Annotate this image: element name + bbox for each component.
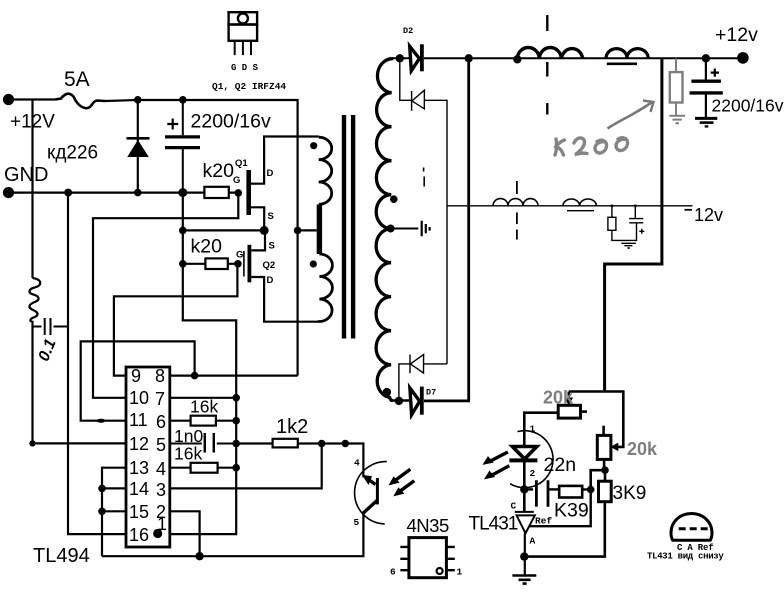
resistor R-k20-2 (gate Q2) [183,263,238,265]
OPTOCOUPLER phototransistor side [355,462,415,524]
TL431 triangle [517,515,535,533]
svg-text:16k: 16k [190,397,218,417]
Ref wire [530,490,591,527]
svg-text:10: 10 [129,388,149,408]
node pin2 on bottom rail [195,552,203,560]
4N35 DIP package [400,538,455,578]
node fuse-diode junction [134,96,142,104]
svg-text:20k: 20k [543,388,574,408]
svg-text:кд226: кд226 [47,143,98,164]
transistor Q2 channel bar [248,245,252,282]
GND input terminal [3,187,14,198]
wire Q2 drain to transformer bottom [251,277,318,322]
svg-text:Q1, Q2 IRFZ44: Q1, Q2 IRFZ44 [212,81,286,92]
pin1 indicator dot inside IC [153,529,162,538]
svg-text:TL431 вид снизу: TL431 вид снизу [647,552,724,562]
wire Q2 source lead up [251,230,265,250]
svg-text:5A: 5A [64,68,90,91]
diode D3 thin (-12v upper) [400,58,447,364]
svg-text:S: S [269,241,275,252]
svg-text:8: 8 [155,366,165,386]
svg-text:5: 5 [156,435,166,455]
node C on -12v [634,205,637,208]
svg-text:Ref: Ref [535,516,552,527]
secondary winding [376,59,393,401]
resistor R-k20-1 (gate Q1) [204,187,228,198]
svg-text:2200/16v: 2200/16v [712,96,784,116]
wire bottom gnd rail to opto emitter [102,513,363,556]
diode кд226 vertical wire [137,100,139,193]
node K39/Ref [587,486,595,494]
node diode on GND rail [134,189,142,197]
primary center-tap bar [317,205,322,255]
svg-text:12v: 12v [694,205,723,225]
node pin8/pin11 junction [191,372,199,380]
svg-text:1: 1 [157,514,167,534]
wire LED anode from pot [524,413,558,447]
INPUT-SECTION [3,94,298,447]
resistor R-16k-2 on pin 4 [170,467,236,469]
wire Q1 source lead [251,207,264,230]
light arrow out 2 [492,466,509,475]
-12V RAIL [447,181,693,248]
svg-text:4: 4 [156,459,166,479]
node gate Q1 [235,189,243,197]
inductor L1 (+12v choke) [517,48,583,59]
wire source gnd line [183,229,264,231]
node R on -12v [611,205,614,208]
resistor R-1k2 [236,444,363,478]
wire pin9 to Q2 gate [114,264,237,376]
diode кд226 symbol [127,137,150,140]
arc around opto transistor [355,462,387,524]
wire GND rail [9,192,239,194]
core bars [342,115,346,339]
node output cap junction [702,54,710,62]
node pin15 [98,508,106,516]
wiper feed line [569,392,624,447]
ground (gray, below k200) [669,116,685,123]
svg-text:TL431: TL431 [469,514,518,535]
wire pin 3 to 1k2 node [170,444,322,489]
svg-text:14: 14 [129,479,149,499]
LED cathode bar [509,458,537,462]
svg-text:D: D [267,275,274,286]
svg-text:6: 6 [390,567,396,578]
opto base bar [376,478,379,504]
TO-220 package drawing [229,12,258,55]
svg-text:12: 12 [129,434,149,454]
svg-text:k20: k20 [191,236,223,258]
svg-text:3: 3 [156,480,166,500]
diode D7 [390,58,469,415]
MOSFET small labels [233,158,275,286]
transistor Q1 channel bar [246,170,251,215]
node pin5 gnd [232,440,240,448]
phasing dot primary bottom [310,260,317,267]
light arrow 1 into transistor [394,469,410,481]
MOSFET Q1 [68,137,363,561]
resistor R-16k-1 on pin 6 [170,420,236,422]
wire VCC filter drop x=32.5 [31,100,33,279]
node gate Q2 [234,260,242,268]
diode D4 thin (-12v lower) [399,355,447,401]
svg-text:16: 16 [129,525,149,545]
svg-text:A: A [530,536,536,547]
wire Q1 gate to pin 10 [93,193,238,398]
capacitor C-22n [524,480,559,506]
plus sign [639,229,644,234]
POT 20k vertical [597,426,611,471]
label -12v [685,209,693,211]
TL431 TO-92 bottom view [671,514,712,541]
svg-text:4: 4 [354,458,360,469]
light arrow 2 into transistor [399,481,415,493]
svg-text:D7: D7 [426,388,436,398]
node secondary center tap [387,225,395,233]
anode wire [524,533,526,574]
node pin6 gnd [232,417,240,425]
wire pin 7 to gnd bus [170,397,236,399]
IC U1 TL494 body [126,367,170,547]
feedback sense line [605,58,662,391]
wire node to K39 node [591,470,605,489]
handwritten k200 (gray) [555,138,628,155]
phasing dot secondary bottom [383,388,391,396]
svg-text:TL494: TL494 [33,545,90,567]
node rectifier output on +12v rail [465,54,473,62]
svg-text:D: D [267,168,274,179]
resistor R-k200 (gray) [669,58,685,123]
svg-text:S: S [268,211,274,222]
wire -12v rail [447,205,693,207]
node center tap [294,227,302,235]
capacitor C-in 2200/16v [165,100,200,193]
node D2 anode junction [396,54,404,62]
dashed core line top [546,15,548,115]
cathode bar [515,511,534,513]
inductor L4 (-12v bead) [563,199,596,206]
transistor Q2 gate bar [243,251,245,277]
svg-text:1: 1 [457,567,463,578]
svg-text:G: G [236,250,243,261]
wire center tap stub [298,229,317,231]
svg-text:2200/16v: 2200/16v [191,111,271,133]
svg-text:1: 1 [530,424,536,435]
ground below C-out [695,117,717,120]
POT 20k horizontal [558,392,623,451]
wiper arrow [567,392,570,401]
wire +12V rail left [9,98,56,100]
node pin14 [98,485,106,493]
svg-text:Q2: Q2 [263,260,276,271]
wire pin 13/14/15 bus [102,468,126,557]
ground TL431 [512,576,536,584]
emitter lead [363,501,377,514]
primary winding lower half [318,254,332,322]
dashed core line -12v [516,181,518,240]
wire LED cathode down [523,460,526,512]
node pot/3K9/ref junction [601,466,609,474]
svg-text:20k: 20k [627,439,658,459]
node Q1/Q2 source junction [260,226,269,235]
LED D5 triangle [512,447,536,459]
node LED cathode / 22n [520,485,528,493]
wire pin 8 (C1) [170,375,298,377]
plus sign C-out [711,69,719,77]
node k20-2 left [179,260,187,268]
wiper arrow vertical pot [611,444,617,451]
wire +12V rail to transformer center-tap drop [105,100,298,376]
svg-text:k20: k20 [203,160,235,182]
ground rotated (secondary CT) [422,221,430,237]
node anode/3K9 [520,552,528,560]
svg-text:C: C [511,501,517,512]
svg-text:16k: 16k [174,444,202,464]
svg-text:G: G [233,175,240,186]
svg-text:4N35: 4N35 [407,515,449,536]
svg-text:D2: D2 [403,26,413,36]
inductor L-vcc hand-drawn spring [29,278,40,322]
capacitor C-0.1 plates [33,318,68,335]
svg-text:11: 11 [129,410,148,430]
primary winding upper half [319,137,332,204]
phasing dot secondary mid [390,195,398,203]
wire pin 16 to GND rail [68,193,126,534]
+12v output terminal [737,52,749,64]
resistor R-3K9 [524,470,611,556]
arc around LED [510,431,553,488]
gnd bus right of IC down to pin1 [170,398,236,534]
resistor R -12v filter [611,206,613,218]
svg-text:Q1: Q1 [235,158,248,169]
node 1k2/pin3 [318,440,326,448]
svg-text:+12V: +12V [10,112,55,133]
wire gnd bus x=182.8 down [183,193,236,398]
bead bar [567,210,594,212]
plus sign C-in [167,119,178,130]
capacitor C-1n0 on pin 5 [170,433,236,453]
diode D2 [392,44,742,71]
svg-text:6: 6 [156,412,166,432]
bead core bar [607,62,637,65]
svg-text:5: 5 [354,517,360,528]
svg-text:3K9: 3K9 [613,483,647,504]
svg-text:7: 7 [155,389,165,409]
svg-text:9: 9 [131,366,141,386]
fuse F1 5A [55,94,105,108]
inductor L2 (+12v bead) [606,49,648,59]
node pin12 corner [29,440,35,446]
capacitor C-out 2200/16v [690,58,723,126]
node +12V input terminal [3,94,14,105]
capacitor C -12v filter [629,206,643,223]
node choke start [513,55,521,63]
phasing dot primary top [310,142,317,149]
annotation arrow to k200 [608,101,654,129]
svg-text:2: 2 [530,468,536,479]
node artifact on pin11 wire [97,419,106,423]
small dash marks above CT [423,168,426,187]
node pin4 gnd [232,464,240,472]
OPTO LED side [484,413,559,512]
svg-text:13: 13 [129,458,149,478]
light arrow out 1 [491,452,508,461]
svg-text:15: 15 [129,502,149,522]
TL431 U2 [515,490,591,575]
svg-text:GND: GND [4,164,48,186]
collector arrow into transistor [367,478,376,484]
node pin16 line on GND rail [64,189,72,197]
inductor L3 (-12v choke) [493,199,538,206]
wire pin 2 [170,511,200,556]
svg-text:1k2: 1k2 [276,416,308,438]
svg-text:K39: K39 [554,500,589,522]
node cap/k20 on GND rail [178,188,187,197]
wire below inductor to pin12 [31,321,33,443]
svg-text:+12v: +12v [715,24,758,46]
TRANSFORMER T1 [294,137,333,322]
node cap junction on +12V rail [179,96,187,104]
svg-text:G D S: G D S [231,63,259,73]
node pin7 gnd [232,394,240,402]
node on wire to opto [342,440,350,448]
wire pin11 to pin8 node [81,341,195,420]
node D7 anode junction [395,397,403,405]
resistor R-K39 [559,486,582,498]
wire center tap to gnd [391,228,419,230]
pin number labels TL494 [129,366,167,545]
ground -12v filter [621,243,636,248]
wire Q1 drain lead to transformer top [251,137,319,184]
node source line left [179,227,187,235]
svg-text:22n: 22n [544,454,577,476]
wire pin 12 (VCC) [33,442,127,444]
